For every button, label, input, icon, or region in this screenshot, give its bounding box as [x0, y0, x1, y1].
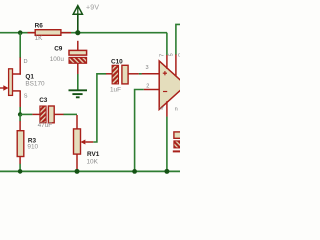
node junction dot +9V/R6 — [75, 30, 80, 35]
svg-text:10K: 10K — [87, 158, 99, 165]
wire C10 to op-amp pin 3 — [139, 73, 142, 75]
node junction dot drain/R6 — [18, 30, 23, 35]
ground symbol — [69, 90, 88, 97]
svg-text:3: 3 — [146, 65, 149, 71]
wire top rail corner drop at x=167 — [166, 33, 168, 56]
capacitor C3 — [32, 97, 63, 129]
op-amp U1 — [142, 53, 186, 117]
resistor R3 — [17, 114, 38, 171]
potentiometer RV1 — [74, 115, 100, 170]
capacitor (clipped at right edge) plate outlined — [174, 132, 182, 138]
svg-text:1uF: 1uF — [110, 87, 121, 94]
svg-text:910: 910 — [27, 143, 38, 150]
pin stub (clipped at right edge) — [173, 150, 180, 152]
svg-text:R6: R6 — [35, 22, 44, 29]
wire op-amp pin 2 to bottom rail — [135, 90, 144, 172]
wire RV1 wiper to C10 — [93, 74, 106, 142]
svg-text:+9V: +9V — [86, 4, 99, 11]
svg-text:RV1: RV1 — [87, 151, 100, 158]
svg-text:C3: C3 — [39, 97, 48, 104]
svg-text:Q1: Q1 — [25, 74, 34, 81]
svg-text:o: o — [178, 52, 180, 58]
capacitor C10 — [106, 58, 139, 93]
resistor R6 — [28, 22, 72, 42]
svg-text:47uF: 47uF — [38, 122, 53, 129]
svg-text:2: 2 — [146, 83, 149, 89]
svg-text:C10: C10 — [111, 58, 123, 65]
wire op-amp pin 4 to bottom rail — [166, 117, 168, 172]
svg-text:7: 7 — [160, 54, 166, 57]
wire bottom rail — [0, 170, 180, 172]
wire drain net (junction to Q1 drain) — [19, 33, 21, 58]
svg-text:5: 5 — [169, 53, 175, 56]
svg-text:C9: C9 — [54, 46, 63, 53]
svg-text:4: 4 — [160, 107, 166, 110]
node junction dot S/C3/R3 — [18, 112, 22, 116]
wire source net down to node — [19, 107, 21, 114]
svg-text:n: n — [175, 107, 178, 113]
svg-text:S: S — [24, 94, 28, 100]
wire node to C3 — [20, 113, 32, 115]
svg-text:BS170: BS170 — [25, 81, 45, 88]
wire top rail from left edge to op-amp V+ corner — [0, 32, 167, 34]
wire C9 to ground — [77, 74, 79, 90]
node junction dot pin2 wire/rail — [132, 169, 137, 174]
svg-text:100u: 100u — [50, 56, 65, 63]
capacitor (clipped at right edge) plate hatched — [174, 141, 182, 148]
supply +9V symbol — [73, 4, 99, 32]
wire C3 to RV1 top corner — [64, 113, 78, 115]
svg-text:D: D — [24, 59, 28, 65]
node junction dot pin4 wire/rail — [164, 169, 169, 174]
node junction dot R3/rail — [18, 169, 23, 174]
wire op-amp pin 5 corner to right edge — [176, 24, 180, 54]
transistor Q1 BS170 — [0, 58, 45, 108]
node junction dot RV1/rail — [75, 169, 80, 174]
svg-text:1K: 1K — [35, 35, 44, 42]
capacitor C9 — [50, 41, 87, 74]
